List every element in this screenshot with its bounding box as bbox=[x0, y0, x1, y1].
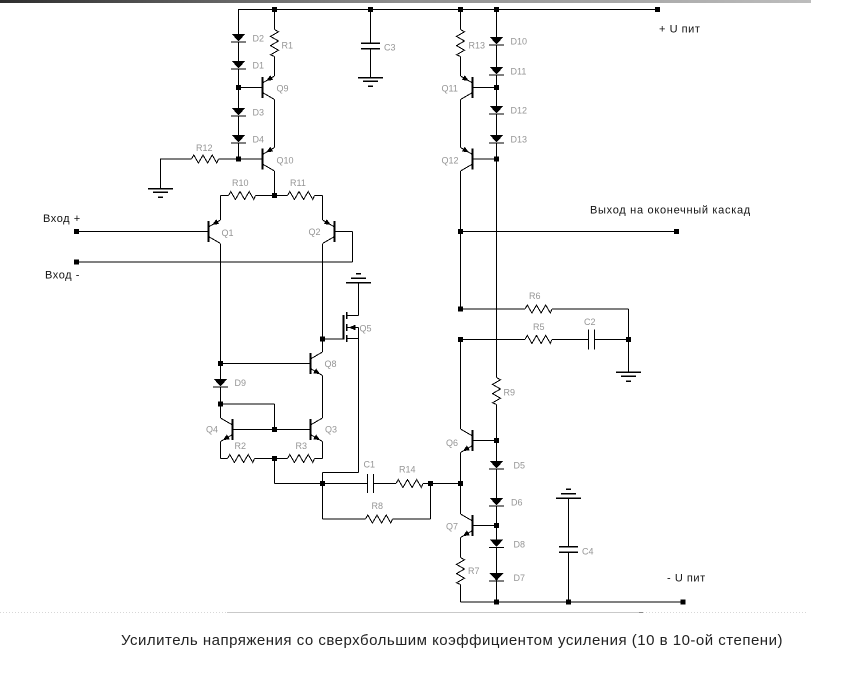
svg-text:Q4: Q4 bbox=[206, 425, 218, 435]
terminal dot -U pit bbox=[681, 600, 686, 605]
resistor R6 bbox=[525, 305, 552, 313]
resistor R13 bbox=[457, 30, 465, 57]
svg-text:R9: R9 bbox=[504, 388, 516, 398]
label C1 bbox=[364, 460, 376, 470]
wire R12 to ground bbox=[160, 159, 162, 189]
label R12 bbox=[196, 143, 213, 153]
svg-text:Q2: Q2 bbox=[309, 227, 321, 237]
label Q6 bbox=[446, 438, 458, 448]
svg-text:D5: D5 bbox=[514, 461, 526, 471]
svg-text:R7: R7 bbox=[468, 566, 480, 576]
label R11 bbox=[290, 178, 306, 188]
node dot D1/Q9 base bbox=[236, 85, 241, 90]
label D6 bbox=[511, 498, 523, 508]
label R7 bbox=[468, 566, 480, 576]
terminal dot Vhod+ bbox=[74, 229, 79, 234]
svg-text:D8: D8 bbox=[514, 540, 526, 550]
wire Q10 collector to tail node bbox=[274, 171, 276, 196]
svg-text:Q11: Q11 bbox=[442, 84, 458, 94]
wire Q4 emitter to R2 bbox=[221, 442, 228, 459]
label C3 bbox=[384, 43, 396, 53]
terminal dot +U pit bbox=[655, 7, 660, 12]
wire Q5 source down bbox=[323, 339, 359, 484]
terminal dot output bbox=[674, 229, 679, 234]
svg-text:D6: D6 bbox=[511, 498, 523, 508]
label D7 bbox=[514, 573, 526, 583]
svg-text:Вход +: Вход + bbox=[43, 213, 81, 225]
diode D9 bbox=[213, 379, 228, 387]
svg-text:D2: D2 bbox=[253, 34, 265, 44]
ground R12 bbox=[148, 189, 173, 198]
resistor R5 bbox=[525, 335, 552, 343]
svg-text:R10: R10 bbox=[232, 178, 249, 188]
transistor Q6 bbox=[461, 429, 473, 453]
transistor Q12 bbox=[461, 147, 473, 171]
label Q10 bbox=[277, 156, 294, 166]
node dot rail/C4 bbox=[566, 600, 571, 605]
svg-text:D10: D10 bbox=[511, 37, 528, 47]
node dot rail/D7 bbox=[494, 600, 499, 605]
wire Q8 base bbox=[221, 363, 311, 365]
node dot R2/R3 bbox=[272, 456, 277, 461]
wire node to D8 bbox=[496, 526, 498, 540]
node dot top rail / R13 bbox=[458, 7, 463, 12]
wire mirror link bbox=[221, 404, 275, 430]
svg-text:C2: C2 bbox=[584, 317, 596, 327]
wire R13 to Q11 emitter bbox=[460, 57, 462, 77]
wire R11 right lead bbox=[315, 195, 323, 197]
svg-text:R6: R6 bbox=[529, 291, 541, 301]
wire node to D5 bbox=[496, 441, 498, 462]
resistor R7 bbox=[457, 558, 465, 585]
wire tail node to R11 bbox=[275, 195, 288, 197]
label D10 bbox=[511, 37, 528, 47]
svg-text:D4: D4 bbox=[253, 135, 265, 145]
label Q9 bbox=[277, 84, 289, 94]
node dot D11/Q11 base bbox=[494, 85, 499, 90]
title text bbox=[121, 632, 783, 649]
svg-text:D9: D9 bbox=[235, 378, 247, 388]
bottom page-break separator bbox=[0, 612, 808, 614]
node dot R9/Q6 base/D5 bbox=[494, 438, 499, 443]
wire Q10 base bbox=[239, 158, 263, 160]
resistor R3 bbox=[288, 455, 315, 463]
label D12 bbox=[511, 106, 528, 116]
svg-text:R1: R1 bbox=[282, 41, 294, 51]
node dot D9 / mirror link bbox=[218, 402, 223, 407]
transistor Q9 bbox=[263, 75, 275, 99]
svg-text:D12: D12 bbox=[511, 106, 528, 116]
svg-text:R12: R12 bbox=[196, 143, 213, 153]
wire Q2 collector down bbox=[322, 244, 324, 339]
wire Q12 base bbox=[473, 158, 497, 160]
wire output node to R6 node bbox=[460, 232, 462, 310]
wire R10 to Q1 emitter bbox=[220, 196, 222, 221]
label D2 bbox=[253, 34, 265, 44]
wire ground to Q5 drain bbox=[347, 283, 359, 316]
label Q4 bbox=[206, 425, 218, 435]
wire right diode column down bbox=[496, 159, 498, 378]
svg-text:C4: C4 bbox=[582, 547, 594, 557]
transistor Q8 bbox=[311, 352, 323, 376]
svg-text:D3: D3 bbox=[253, 108, 265, 118]
wire top rail to C3 bbox=[370, 10, 372, 44]
svg-text:Усилитель напряжения со сверхб: Усилитель напряжения со сверхбольшим коэ… bbox=[121, 632, 783, 649]
label output bbox=[590, 205, 751, 217]
wire node to ground bbox=[628, 339, 630, 372]
wire Q8 emitter to Q3 collector bbox=[322, 376, 324, 419]
node dot Q5 gate / Q2 collector / Q8 bbox=[320, 337, 325, 342]
wire Q7 collector up bbox=[460, 484, 462, 515]
wire top rail to D10 bbox=[496, 10, 498, 38]
wire node to Q6Q7 node bbox=[431, 483, 461, 485]
wire D12 to D13 bbox=[496, 114, 498, 135]
svg-text:R5: R5 bbox=[533, 322, 545, 332]
svg-text:R13: R13 bbox=[469, 41, 486, 51]
label R10 bbox=[232, 178, 249, 188]
node dot D6/Q7 base/D8 bbox=[494, 523, 499, 528]
wire Q1 collector down bbox=[220, 244, 222, 364]
diode D10 bbox=[489, 37, 504, 45]
svg-text:R8: R8 bbox=[372, 501, 384, 511]
wire Vhod- riser to Q2 base bbox=[335, 232, 353, 263]
node dot R6/R5 junction bbox=[458, 337, 463, 342]
label C2 bbox=[584, 317, 596, 327]
label R13 bbox=[469, 41, 486, 51]
wire node to C1 bbox=[323, 483, 368, 485]
svg-text:+ U пит: + U пит bbox=[659, 24, 700, 36]
svg-text:Q5: Q5 bbox=[360, 324, 372, 334]
wire R2R3 node down to feedback row bbox=[275, 459, 323, 484]
wire R11 to Q2 emitter bbox=[322, 196, 324, 221]
ground Q5 drain (inverted) bbox=[346, 274, 371, 283]
label R1 bbox=[282, 41, 294, 51]
wire D8 to D7 bbox=[496, 548, 498, 574]
node dot top rail / C3 bbox=[368, 7, 373, 12]
wire D1 to node bbox=[238, 69, 240, 88]
diode D2 bbox=[231, 34, 246, 42]
node dot Q1 collector / Q8 base bbox=[218, 361, 223, 366]
svg-text:R14: R14 bbox=[399, 465, 416, 475]
svg-text:D7: D7 bbox=[514, 573, 526, 583]
svg-text:R2: R2 bbox=[235, 441, 247, 451]
wire top rail to R1 bbox=[274, 10, 276, 30]
wire Vhod+ to Q1 base bbox=[77, 231, 209, 233]
wire D13 to node bbox=[496, 143, 498, 159]
wire -V bottom rail bbox=[461, 601, 684, 603]
wire C4 to rail bbox=[568, 553, 570, 602]
wire Q6 emitter down bbox=[460, 453, 462, 484]
diode D4 bbox=[231, 135, 246, 143]
svg-text:D11: D11 bbox=[511, 67, 527, 77]
wire top rail to R13 bbox=[460, 10, 462, 30]
svg-text:Q6: Q6 bbox=[446, 438, 458, 448]
label R6 bbox=[529, 291, 541, 301]
svg-text:Q10: Q10 bbox=[277, 156, 294, 166]
label R14 bbox=[399, 465, 416, 475]
label D5 bbox=[514, 461, 526, 471]
wire D5 to D6 bbox=[496, 469, 498, 498]
diode D1 bbox=[231, 61, 246, 69]
node dot top rail / R1 bbox=[272, 7, 277, 12]
wire D2 to D1 bbox=[238, 42, 240, 61]
resistor R2 bbox=[228, 455, 255, 463]
wire R3 to Q3 emitter bbox=[315, 442, 323, 459]
wire R9 to node bbox=[496, 405, 498, 441]
diode D12 bbox=[489, 106, 504, 114]
label Vhod+ bbox=[43, 213, 81, 225]
wire ground to C4 bbox=[568, 498, 570, 547]
wire +V top rail bbox=[239, 9, 658, 11]
wire Q6 collector up bbox=[460, 428, 462, 430]
svg-text:Q3: Q3 bbox=[325, 425, 337, 435]
wire R2 to node bbox=[255, 458, 275, 460]
wire Q5 gate bbox=[323, 338, 344, 340]
node dot top rail / D10 bbox=[494, 7, 499, 12]
wire R8 loop right bbox=[393, 484, 431, 520]
transistor Q10 bbox=[263, 147, 275, 171]
diode D13 bbox=[489, 135, 504, 143]
wire Q12 collector to output node bbox=[460, 171, 462, 232]
svg-text:Выход на оконечный каскад: Выход на оконечный каскад bbox=[590, 205, 751, 217]
wire Q11 base bbox=[473, 87, 497, 89]
label R9 bbox=[504, 388, 516, 398]
wire R10 left lead bbox=[221, 195, 229, 197]
node dot output bbox=[458, 229, 463, 234]
wire Q7 base bbox=[473, 525, 497, 527]
label Q8 bbox=[325, 359, 337, 369]
mosfet Q5 bbox=[344, 312, 359, 342]
label Vhod- bbox=[45, 270, 80, 282]
diode D7 bbox=[489, 573, 504, 581]
resistor R11 bbox=[288, 192, 315, 200]
svg-text:Q7: Q7 bbox=[446, 522, 458, 532]
label -U pit bbox=[667, 573, 706, 585]
top window edge bar bbox=[0, 0, 811, 3]
wire R10 to tail node bbox=[256, 195, 275, 197]
wire R6 lead bbox=[461, 308, 526, 310]
label D9 bbox=[235, 378, 247, 388]
ground C3 bbox=[358, 78, 383, 87]
wire Q9 base bbox=[239, 87, 263, 89]
wire D10 to D11 bbox=[496, 45, 498, 67]
transistor Q3 bbox=[311, 418, 323, 442]
wire output line bbox=[461, 231, 677, 233]
svg-text:R11: R11 bbox=[290, 178, 306, 188]
wire D9 to node bbox=[220, 387, 222, 404]
diode D3 bbox=[231, 108, 246, 116]
ground C2 node bbox=[616, 372, 641, 381]
svg-text:- U пит: - U пит bbox=[667, 573, 706, 585]
transistor Q4 bbox=[221, 418, 233, 442]
node dot Q4/Q3 bases bbox=[272, 427, 277, 432]
transistor Q2 bbox=[323, 219, 335, 243]
svg-text:C1: C1 bbox=[364, 460, 376, 470]
node dot feedback left bbox=[320, 481, 325, 486]
capacitor C4 bbox=[559, 547, 578, 553]
svg-text:R3: R3 bbox=[296, 441, 308, 451]
resistor R14 bbox=[396, 480, 423, 488]
node dot Q6 emitter/Q7 collector bbox=[458, 481, 463, 486]
label R2 bbox=[235, 441, 247, 451]
wire Q6 base bbox=[473, 440, 497, 442]
wire D4 to node bbox=[238, 143, 240, 159]
wire R8 loop left bbox=[323, 484, 366, 520]
label +U pit bbox=[659, 24, 700, 36]
diode D6 bbox=[489, 498, 504, 506]
label R3 bbox=[296, 441, 308, 451]
diode D8 bbox=[489, 539, 504, 547]
wire R1 to Q9 emitter bbox=[274, 57, 276, 77]
wire base row Q4-Q3 bbox=[233, 429, 310, 431]
node dot D13/Q12 base bbox=[494, 157, 499, 162]
ground C4 (inverted) bbox=[556, 489, 581, 498]
svg-text:Q1: Q1 bbox=[222, 228, 234, 238]
diode D5 bbox=[489, 461, 504, 469]
svg-text:Вход -: Вход - bbox=[45, 270, 80, 282]
wire R5 lead bbox=[461, 338, 526, 340]
wire node to R3 bbox=[275, 458, 288, 460]
label C4 bbox=[582, 547, 594, 557]
wire D3 to D4 bbox=[238, 116, 240, 135]
wire node to D9 bbox=[220, 364, 222, 380]
wire C3 to ground bbox=[370, 49, 372, 77]
svg-text:D13: D13 bbox=[511, 135, 528, 145]
wire R14 to node bbox=[423, 483, 431, 485]
wire Q9 collector to Q10 emitter bbox=[274, 100, 276, 148]
svg-text:D1: D1 bbox=[253, 61, 265, 71]
wire R6 to corner bbox=[552, 309, 629, 339]
wire gate node to Q8 bbox=[322, 339, 324, 352]
wire C2 to node bbox=[595, 338, 629, 340]
resistor R8 bbox=[366, 515, 393, 523]
resistor R1 bbox=[271, 30, 279, 57]
label D3 bbox=[253, 108, 265, 118]
capacitor C1 bbox=[368, 474, 374, 493]
resistor R9 bbox=[493, 378, 501, 405]
label D1 bbox=[253, 61, 265, 71]
resistor R10 bbox=[229, 192, 256, 200]
label R5 bbox=[533, 322, 545, 332]
node dot D4/R12/Q10 base bbox=[236, 157, 241, 162]
capacitor C3 bbox=[361, 43, 380, 49]
transistor Q1 bbox=[209, 219, 221, 243]
wire D11 to node bbox=[496, 75, 498, 88]
node dot R14/R8 bbox=[428, 481, 433, 486]
label D4 bbox=[253, 135, 265, 145]
label Q1 bbox=[222, 228, 234, 238]
wire node to Q4 collector bbox=[220, 404, 222, 418]
node dot C2/ground bbox=[626, 337, 631, 342]
wire node to D3 bbox=[238, 88, 240, 109]
node dot tail R10/R11 bbox=[272, 193, 277, 198]
svg-text:Q8: Q8 bbox=[325, 359, 337, 369]
wire R5 node down to Q6 bbox=[460, 339, 462, 429]
label Q5 bbox=[360, 324, 372, 334]
svg-text:C3: C3 bbox=[384, 43, 396, 53]
wire R7 to rail bbox=[460, 585, 462, 603]
capacitor C2 bbox=[589, 329, 595, 349]
wire D6 to node bbox=[496, 506, 498, 526]
wire top rail to D2 bbox=[238, 9, 240, 34]
node dot R6 bbox=[458, 307, 463, 312]
label Q3 bbox=[325, 425, 337, 435]
transistor Q11 bbox=[461, 75, 473, 99]
terminal dot Vhod- bbox=[74, 260, 79, 265]
label Q11 bbox=[442, 84, 458, 94]
label Q12 bbox=[442, 156, 459, 166]
label R8 bbox=[372, 501, 384, 511]
label D11 bbox=[511, 67, 527, 77]
wire Vhod- run bbox=[77, 261, 353, 263]
label D8 bbox=[514, 540, 526, 550]
svg-text:Q12: Q12 bbox=[442, 156, 459, 166]
wire node to D12 bbox=[496, 88, 498, 107]
wire R5 to C2 bbox=[552, 338, 589, 340]
diode D11 bbox=[489, 67, 504, 75]
label Q7 bbox=[446, 522, 458, 532]
resistor R12 bbox=[161, 155, 239, 163]
transistor Q7 bbox=[461, 514, 473, 538]
wire C1 to R14 bbox=[374, 483, 397, 485]
svg-text:Q9: Q9 bbox=[277, 84, 289, 94]
label D13 bbox=[511, 135, 528, 145]
wire Q7 emitter to R7 bbox=[460, 538, 462, 558]
wire D7 to rail bbox=[496, 581, 498, 602]
wire Q11 collector to Q12 emitter bbox=[460, 100, 462, 148]
label Q2 bbox=[309, 227, 321, 237]
